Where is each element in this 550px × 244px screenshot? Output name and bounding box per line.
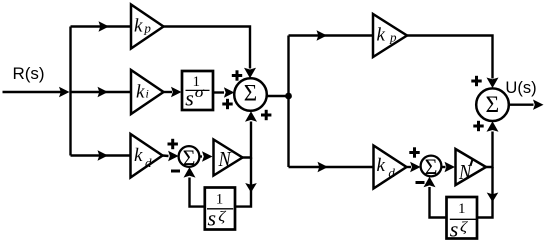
svg-text:k: k [377, 24, 386, 45]
minus sign sum2r bottom input [416, 181, 425, 184]
block left feedback 1/s^zeta [205, 188, 235, 231]
svg-text:U(s): U(s) [505, 79, 536, 97]
svg-text:k: k [136, 81, 145, 102]
svg-text:s: s [450, 216, 459, 241]
wire ki to integrator [164, 87, 182, 97]
block right feedback 1/s^zeta [447, 197, 478, 241]
minus sign sum2l bottom input [171, 170, 180, 173]
svg-text:p: p [389, 30, 397, 45]
wire sum2l to N [199, 151, 212, 161]
node junction dot [285, 93, 292, 100]
gain block Nprime [456, 149, 487, 185]
wire kd2 to sum2r [407, 162, 421, 172]
svg-text:s: s [185, 86, 194, 111]
plus sign sum2r top input [409, 147, 419, 157]
node U(s) output label [505, 79, 536, 97]
wire N to sum1 bottom [243, 111, 258, 157]
wire input R(s) [3, 87, 70, 97]
gain block N [214, 140, 243, 176]
svg-text:1: 1 [216, 191, 224, 207]
wire kd1 to sum2l [163, 151, 179, 161]
summing junction sum2r [421, 154, 442, 179]
svg-text:Σ: Σ [244, 81, 257, 106]
gain block kd1 [131, 134, 163, 178]
gain block kp2 [373, 14, 407, 57]
summing junction sum3 output stage [476, 88, 509, 121]
svg-text:Σ: Σ [425, 154, 438, 179]
summing junction sum1 [234, 78, 267, 111]
wire bus to kp1 [71, 21, 132, 31]
wire sum3 output U(s) [509, 100, 544, 110]
wire Nprime down to feedback box right [478, 167, 498, 218]
plus sign sum3 top input [471, 76, 481, 86]
wire Nprime to sum3 bottom [486, 121, 499, 167]
wire feedback box to sum2l bottom [184, 167, 206, 207]
node R(s) input label [12, 64, 44, 83]
svg-text:d: d [145, 155, 152, 170]
block fractional integrator 1/s^sigma [182, 71, 213, 111]
gain block kd2 [374, 146, 407, 189]
plus sign sum1 bottom input [261, 110, 271, 120]
plus sign sum1 top input [232, 70, 242, 80]
wire input distribution bus [69, 27, 71, 156]
svg-text:σ: σ [195, 84, 205, 101]
plus sign sum1 left input [222, 99, 232, 109]
svg-text:s: s [208, 206, 217, 231]
wire integrator to sum1 left [213, 87, 234, 97]
wire bus to ki [71, 87, 132, 97]
svg-text:k: k [134, 145, 143, 166]
plus sign sum3 bottom input [473, 121, 483, 131]
wire N down to feedback box left [235, 158, 257, 207]
wire sum2r to Nprime [441, 162, 455, 172]
svg-text:ζ: ζ [218, 209, 227, 225]
svg-text:R(s): R(s) [12, 64, 44, 83]
svg-text:d: d [388, 165, 395, 180]
wire junction bus vertical [287, 36, 289, 168]
svg-text:k: k [377, 155, 386, 176]
svg-text:i: i [146, 87, 149, 101]
wire bus to kd1 [71, 150, 131, 160]
wire feedback box to sum2r bottom [424, 177, 448, 218]
plus sign sum2l top input [168, 139, 178, 149]
wire kp2 to sum3 top [407, 36, 499, 89]
wire sum1 output to junction node [267, 95, 289, 97]
svg-text:k: k [134, 15, 143, 36]
svg-text:Σ: Σ [183, 145, 196, 170]
wire kp1 to sum1 top [164, 27, 257, 79]
svg-text:ζ: ζ [460, 219, 469, 235]
wire bus2 to kd2 [289, 162, 374, 172]
svg-text:Σ: Σ [486, 92, 500, 118]
svg-text:N: N [218, 148, 233, 172]
gain block kp1 [131, 5, 164, 49]
svg-text:p: p [143, 20, 151, 35]
wire bus2 to kp2 [289, 30, 374, 40]
gain block ki [131, 70, 164, 114]
summing junction sum2l [179, 145, 200, 170]
svg-text:1: 1 [458, 201, 466, 217]
